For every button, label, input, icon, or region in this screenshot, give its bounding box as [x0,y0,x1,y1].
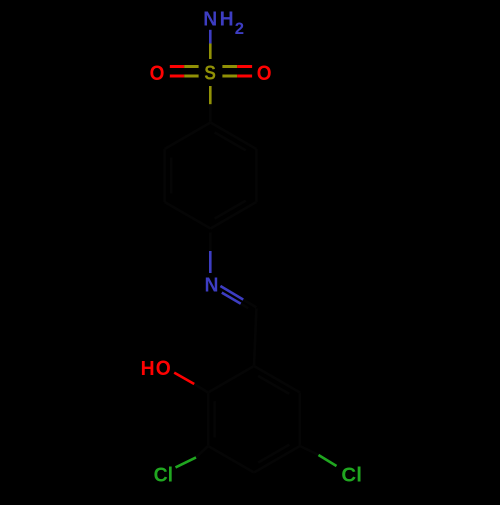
wire ring1 C5-C6 [163,149,166,202]
wire ring1 C1-C2 [211,123,257,150]
wire ring1 inner C3=C4 [215,201,246,219]
svg-text:N: N [203,9,217,31]
wire ring1 inner C5=C6 [170,158,173,194]
wire ring2 C1p-C2p [208,366,254,393]
bond C3p-Cl left [196,446,208,457]
bond C4-N(imine) [209,233,212,252]
double bond S=O right [222,65,237,68]
wire ring2 C3p-C4p [208,446,254,473]
svg-text:Cl: Cl [341,464,362,486]
wire ring2 inner C6p=C1p [258,376,289,394]
double bond S=O left [170,65,184,68]
wire ring2 C6p-C1p [254,366,300,393]
double bond N=CH line 1 [220,286,243,300]
bond S-C1 [209,86,212,104]
bond N(H2)-S [209,30,212,44]
wire ring1 C6-C1 [165,123,211,150]
svg-text:O: O [156,357,171,380]
svg-text:S: S [204,63,216,85]
svg-text:O: O [150,62,165,85]
double bond N=CH line 2 [222,293,241,304]
bond C5p-Cl right [300,446,319,455]
svg-text:H: H [141,358,155,380]
svg-text:N: N [205,274,219,296]
wire ring2 C5p-C6p [299,393,302,447]
bond CH-C1prime [254,309,256,367]
wire ring1 C3-C4 [211,202,257,229]
wire ring2 C2p-C3p [207,393,210,447]
wire ring1 inner C1=C2 [215,132,246,150]
svg-text:O: O [257,62,272,85]
svg-text:H: H [220,9,234,31]
wire ring2 inner C2p=C3p [213,401,216,437]
svg-text:Cl: Cl [154,464,174,486]
wire ring2 C4p-C5p [254,446,300,473]
wire ring2 inner C4p=C5p [258,445,289,463]
bond C2p-O(H) [194,384,208,393]
wire ring1 C2-C3 [255,149,258,202]
wire ring1 C4-C5 [165,202,211,229]
svg-text:2: 2 [235,20,244,38]
